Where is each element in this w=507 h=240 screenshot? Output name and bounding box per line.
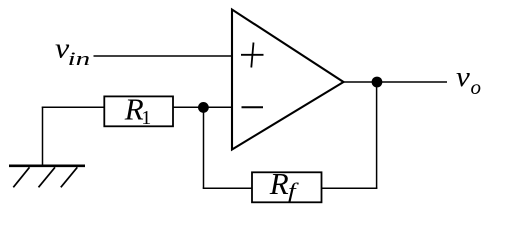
wire R1 to node A (173, 106, 203, 108)
node A junction dot (198, 102, 209, 113)
svg-text:o: o (471, 75, 482, 99)
node vin label (55, 33, 90, 70)
svg-text:R: R (269, 166, 289, 201)
wire feedback up to output node (376, 82, 378, 188)
wire op-amp output (344, 81, 448, 83)
wire Rf right to output branch (322, 187, 378, 189)
svg-text:f: f (288, 179, 300, 203)
resistor Rf (252, 166, 322, 203)
svg-text:1: 1 (141, 107, 151, 129)
svg-text:in: in (68, 49, 91, 70)
output node junction dot (372, 77, 383, 88)
ground (9, 107, 85, 188)
wire ground to R1 (42, 106, 105, 108)
wire vin to noninverting input (94, 55, 233, 57)
op-amp U1 (232, 10, 344, 150)
wire node A to inverting input (203, 106, 232, 108)
wire to Rf left (203, 187, 252, 189)
resistor R1 (104, 92, 173, 129)
node vo label (456, 61, 481, 99)
wire node A down (203, 107, 205, 188)
svg-text:v: v (456, 61, 470, 93)
